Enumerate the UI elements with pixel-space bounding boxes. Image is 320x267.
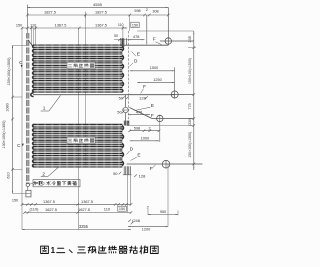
svg-text:1000: 1000 bbox=[141, 136, 149, 140]
svg-text:128: 128 bbox=[139, 95, 146, 100]
svg-text:128: 128 bbox=[139, 174, 146, 179]
svg-text:1367.5: 1367.5 bbox=[95, 23, 107, 28]
svg-text:(248: (248 bbox=[132, 218, 141, 223]
svg-text:1627.5: 1627.5 bbox=[45, 207, 57, 212]
svg-text:150: 150 bbox=[119, 207, 125, 211]
svg-text:130×100(=1300): 130×100(=1300) bbox=[2, 120, 6, 149]
svg-text:1080: 1080 bbox=[6, 103, 10, 111]
svg-text:150×100(=1500): 150×100(=1500) bbox=[188, 58, 192, 84]
svg-text:F: F bbox=[143, 84, 146, 89]
svg-text:3255: 3255 bbox=[79, 224, 89, 229]
svg-text:2: 2 bbox=[42, 171, 45, 176]
svg-text:1367.5: 1367.5 bbox=[43, 199, 55, 204]
svg-text:110: 110 bbox=[118, 23, 124, 27]
svg-text:F: F bbox=[151, 113, 154, 118]
svg-text:150×100(=1500): 150×100(=1500) bbox=[7, 57, 11, 86]
svg-text:1367.5: 1367.5 bbox=[55, 23, 67, 28]
svg-text:1827.5: 1827.5 bbox=[44, 10, 56, 15]
svg-text:1: 1 bbox=[51, 246, 56, 255]
svg-text:150: 150 bbox=[16, 24, 22, 28]
svg-text:1250: 1250 bbox=[153, 78, 161, 82]
svg-text:150×100(=1300): 150×100(=1300) bbox=[188, 132, 192, 158]
svg-text:E: E bbox=[137, 153, 140, 158]
svg-text:110: 110 bbox=[104, 207, 111, 212]
svg-text:4555: 4555 bbox=[93, 2, 103, 7]
svg-text:110: 110 bbox=[30, 24, 36, 28]
svg-text:950: 950 bbox=[160, 210, 166, 214]
svg-text:150: 150 bbox=[132, 24, 138, 28]
svg-text:1627.5: 1627.5 bbox=[78, 207, 90, 212]
svg-text:50: 50 bbox=[114, 34, 118, 38]
svg-text:50: 50 bbox=[117, 110, 122, 115]
svg-text:775: 775 bbox=[188, 103, 192, 109]
svg-text:E: E bbox=[137, 52, 140, 57]
svg-text:1367.5: 1367.5 bbox=[81, 199, 93, 204]
svg-text:2: 2 bbox=[146, 8, 148, 12]
svg-text:2: 2 bbox=[148, 126, 150, 130]
svg-text:F: F bbox=[150, 166, 153, 171]
svg-text:235: 235 bbox=[188, 36, 192, 42]
svg-text:50: 50 bbox=[113, 171, 118, 176]
svg-text:1500: 1500 bbox=[150, 66, 158, 70]
svg-text:(230): (230) bbox=[188, 118, 192, 126]
svg-text:F: F bbox=[153, 37, 156, 42]
svg-text:D: D bbox=[134, 58, 138, 63]
svg-text:E: E bbox=[151, 103, 154, 108]
svg-text:598: 598 bbox=[134, 9, 140, 13]
svg-text:1827.5: 1827.5 bbox=[95, 10, 107, 15]
svg-text:150: 150 bbox=[12, 199, 18, 203]
svg-text:478: 478 bbox=[133, 35, 139, 39]
svg-text:1200: 1200 bbox=[142, 228, 150, 232]
svg-text:308: 308 bbox=[152, 9, 158, 13]
svg-text:1: 1 bbox=[43, 106, 46, 111]
svg-text:598: 598 bbox=[134, 126, 140, 130]
svg-text:(110): (110) bbox=[29, 206, 39, 211]
svg-text:610: 610 bbox=[6, 172, 10, 178]
